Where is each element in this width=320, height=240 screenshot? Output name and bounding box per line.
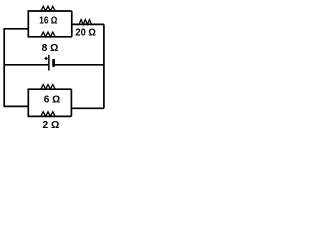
wire: bottom box right edge (70, 89, 72, 116)
label 16 ohm (39, 16, 57, 27)
wire: right vertical wire (103, 24, 105, 108)
wire: top box right edge (71, 11, 73, 37)
resistor 16 ohm (top rail of upper parallel pair) (28, 6, 72, 11)
resistor 20 ohm (series branch, top right) (72, 20, 104, 25)
label + (battery polarity) (45, 57, 48, 60)
label 20 ohm (75, 28, 96, 39)
wire: connector to upper parallel pair (3, 28, 28, 30)
resistor 8 ohm (bottom rail of upper parallel pair) (28, 32, 72, 37)
svg-text:20 Ω: 20 Ω (75, 28, 96, 39)
wire: connector to lower parallel pair (left) (3, 105, 28, 107)
label 8 ohm (42, 43, 59, 54)
svg-text:16 Ω: 16 Ω (39, 16, 57, 27)
wire: battery rail left (4, 64, 48, 66)
resistor 2 ohm (bottom rail of lower parallel pair) (28, 112, 72, 117)
label 6 ohm (44, 94, 60, 105)
svg-text:8 Ω: 8 Ω (42, 43, 59, 54)
wire: bottom box left edge (27, 89, 29, 116)
wire: connector to lower parallel pair (right) (71, 107, 104, 109)
wire: left vertical wire (3, 29, 5, 107)
svg-text:6 Ω: 6 Ω (44, 94, 60, 105)
wire: battery rail right (55, 64, 104, 66)
svg-text:2 Ω: 2 Ω (42, 120, 59, 131)
resistor 6 ohm (top rail of lower parallel pair) (28, 85, 72, 90)
battery (cell) (49, 55, 54, 71)
wire: top box left edge (27, 11, 29, 37)
label 2 ohm (42, 120, 59, 131)
